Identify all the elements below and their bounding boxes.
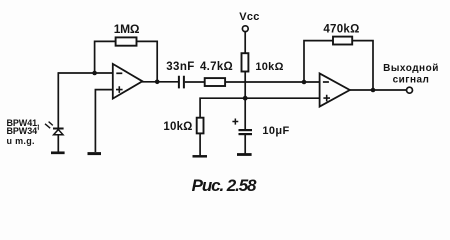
svg-text:4.7kΩ: 4.7kΩ	[200, 61, 233, 73]
wire: divider node to U2 non-inverting input and down to R4	[200, 98, 320, 118]
svg-text:Рис. 2.58: Рис. 2.58	[192, 176, 257, 195]
wire: C2 to ground	[244, 134, 246, 154]
wire: Vcc terminal to R3	[244, 32, 246, 54]
svg-text:сигнал: сигнал	[393, 75, 430, 86]
wire: R3 down through crossover to divider node	[244, 71, 246, 130]
label D1 types BPW41 BPW34	[7, 118, 40, 146]
op-amp U1	[113, 64, 143, 99]
capacitor C1 33nF	[179, 76, 184, 89]
resistor R1 1MOhm	[116, 37, 137, 45]
svg-text:10μF: 10μF	[262, 125, 289, 137]
svg-text:33nF: 33nF	[166, 61, 194, 73]
ground: U1 non-inverting input	[88, 152, 102, 155]
wire: U2 output to terminal	[350, 89, 407, 91]
wire: U1 output to C1	[142, 81, 178, 83]
photodiode light arrows	[45, 122, 53, 129]
svg-text:u m.g.: u m.g.	[7, 136, 35, 146]
node C: U2 inverting input junction	[302, 80, 307, 85]
label output signal (Выходной сигнал)	[383, 63, 439, 86]
resistor R2 4.7kOhm	[205, 78, 225, 86]
svg-text:Vcc: Vcc	[239, 11, 259, 23]
resistor R5 470kOhm	[333, 37, 352, 45]
wire: U1 non-inverting input to ground	[95, 90, 112, 152]
wire: R5 feedback loop around U2	[304, 41, 373, 90]
output terminal	[407, 87, 413, 93]
svg-text:10kΩ: 10kΩ	[163, 121, 192, 133]
capacitor C2 10uF electrolytic	[232, 119, 252, 135]
node E: output feedback junction	[371, 88, 376, 93]
wire: drop from input node down to photodiode	[57, 72, 59, 128]
svg-text:1MΩ: 1MΩ	[114, 22, 140, 36]
wire: C1 to R2	[185, 81, 205, 83]
node D: bias divider node	[243, 96, 248, 101]
svg-text:BPW34’: BPW34’	[7, 126, 40, 136]
svg-text:Выходной: Выходной	[383, 63, 439, 74]
svg-text:470kΩ: 470kΩ	[323, 24, 359, 36]
wire: R1 feedback loop around U1	[95, 41, 158, 81]
ground: C2	[237, 153, 252, 156]
node B: U1 output / feedback junction	[155, 80, 160, 85]
ground: R4	[193, 155, 208, 158]
ground: photodiode	[51, 151, 65, 154]
resistor R4 10kOhm to ground	[197, 118, 204, 134]
Vcc supply terminal	[242, 26, 248, 32]
wire: photodiode cathode to U1 inverting input	[58, 72, 113, 74]
wire: R2 to U2 inverting input	[225, 81, 320, 83]
op-amp U2	[320, 73, 350, 106]
resistor R3 10kOhm pull-up	[242, 53, 249, 71]
wire: R4 to ground	[199, 133, 201, 155]
photodiode D1	[53, 129, 64, 153]
svg-text:10kΩ: 10kΩ	[255, 61, 283, 73]
node A: U1 inverting input junction	[92, 71, 97, 76]
